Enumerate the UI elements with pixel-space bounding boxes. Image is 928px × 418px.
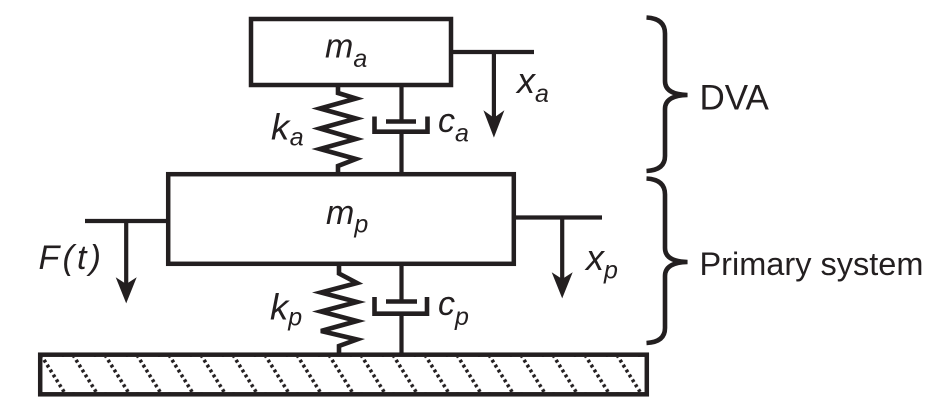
label k_a (271, 107, 304, 152)
mass m_a box (251, 19, 451, 85)
svg-text:DVA: DVA (700, 79, 770, 118)
wire from m_a right edge to x_a arrow (451, 50, 534, 54)
svg-text:F(t): F(t) (39, 239, 105, 277)
brace DVA (647, 18, 688, 172)
label Primary system (700, 246, 924, 282)
wire from m_p right edge to x_p arrow (515, 215, 602, 219)
spring k_p (321, 264, 357, 354)
ground (40, 355, 647, 395)
damper c_p (375, 264, 428, 354)
damper c_a (375, 85, 428, 174)
label x_p (584, 237, 618, 285)
mass m_p box (168, 174, 514, 264)
svg-text:Primary system: Primary system (700, 246, 924, 282)
arrow x_p (552, 218, 573, 299)
arrow x_a (483, 52, 504, 138)
label DVA (700, 79, 770, 118)
label m_p (326, 194, 368, 239)
arrow F(t) (116, 221, 137, 303)
brace Primary system (647, 179, 688, 344)
label m_a (325, 28, 367, 74)
label k_p (270, 287, 302, 332)
spring k_a (320, 85, 356, 174)
wire from F(t) to m_p left edge (85, 219, 167, 223)
label c_p (438, 285, 469, 331)
label x_a (515, 60, 549, 108)
label F(t) (39, 239, 105, 277)
label c_a (438, 102, 469, 148)
